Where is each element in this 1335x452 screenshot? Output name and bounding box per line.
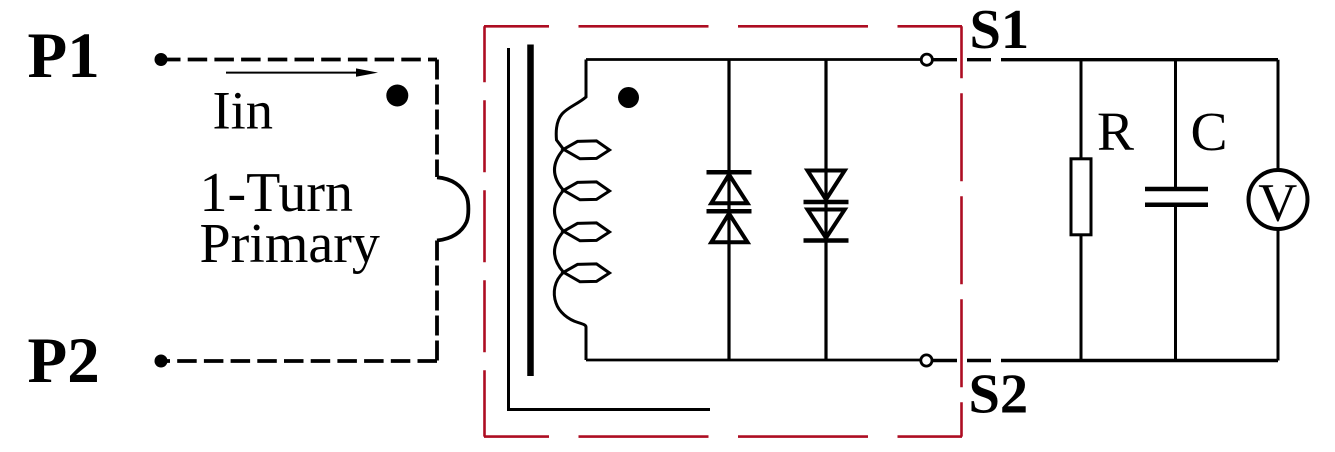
CT module boundary (red dashed box) [484, 26, 962, 436]
wire primary top (dashed) [161, 58, 437, 62]
primary hump (crossover bump) [437, 177, 468, 240]
svg-text:V: V [1258, 173, 1297, 233]
diode D4 triangle [808, 210, 845, 239]
winding bottom lead [554, 272, 586, 360]
diode D1 triangle [711, 175, 747, 204]
wire secondary top rail [586, 58, 921, 61]
wire S1 lead to load [933, 58, 1278, 61]
primary conductor through core (one-turn bar) [509, 48, 711, 410]
wire capacitor branch bottom [1174, 205, 1177, 361]
svg-text:S2: S2 [969, 364, 1029, 426]
wire secondary bottom rail [586, 359, 921, 362]
wire resistor branch bottom [1080, 235, 1083, 361]
svg-text:S1: S1 [970, 0, 1030, 61]
wire voltmeter branch bottom [1277, 229, 1280, 361]
terminal S2 (open circle) [921, 355, 932, 366]
wire primary right vertical upper (dashed) [435, 60, 439, 178]
diode D4 cathode bar [804, 238, 849, 243]
svg-text:C: C [1191, 102, 1228, 163]
node P1 terminal dot [155, 53, 168, 66]
transformer core bar [527, 45, 534, 377]
winding loop 3 [564, 223, 610, 241]
winding loop 1 [564, 141, 610, 159]
voltmeter V body [1249, 170, 1308, 229]
arrow Iin current direction [226, 68, 378, 76]
wire capacitor branch top [1174, 60, 1177, 189]
wire resistor branch top [1080, 60, 1083, 159]
diode D2 cathode bar [707, 209, 752, 214]
svg-text:Iin: Iin [213, 80, 274, 141]
winding spine arcs [555, 149, 564, 272]
svg-text:P1: P1 [28, 20, 100, 92]
capacitor C plate bottom [1145, 202, 1208, 207]
svg-text:P2: P2 [28, 325, 100, 397]
node P2 terminal dot [155, 355, 168, 368]
wire primary bottom (dashed) [161, 359, 437, 363]
capacitor C plate top [1145, 187, 1208, 192]
diode D3 cathode bar [804, 200, 849, 205]
wire S2 lead to load [933, 359, 1278, 362]
secondary polarity dot [618, 87, 639, 108]
wire voltmeter branch top [1277, 60, 1280, 170]
label 1-Turn Primary [200, 162, 380, 275]
primary polarity dot [386, 85, 408, 107]
winding loop 4 [564, 264, 610, 282]
winding loop 2 [564, 182, 610, 200]
wire clamp branch 2 [824, 60, 827, 361]
secondary winding L1 spine [556, 60, 586, 150]
svg-text:Primary: Primary [200, 213, 380, 275]
diode D1 cathode bar [707, 170, 752, 175]
resistor R body [1071, 159, 1091, 235]
diode D2 triangle [711, 214, 747, 243]
wire primary right vertical lower (dashed) [435, 241, 439, 362]
wire clamp branch 1 [727, 60, 730, 361]
diode D3 triangle [808, 171, 845, 200]
terminal S1 (open circle) [921, 54, 932, 65]
svg-text:R: R [1097, 102, 1134, 163]
